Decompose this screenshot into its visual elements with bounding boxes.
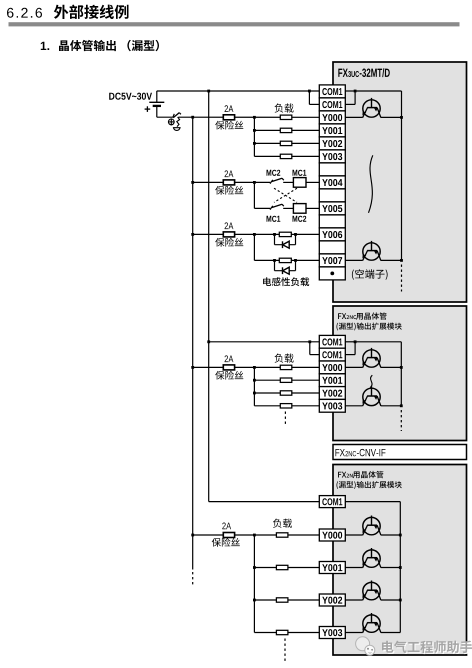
wire m2 Y003 to transistor — [345, 405, 362, 407]
omitted rows squiggle module2 — [370, 375, 372, 387]
inductive load Y006 — [279, 232, 291, 236]
battery DC5V~30V — [109, 93, 152, 100]
interlock dashed cross — [274, 188, 297, 202]
label FX2NC transistor sink output expansion module — [338, 313, 346, 319]
terminal Y005 — [319, 202, 345, 215]
load m2 Y003 — [280, 404, 292, 408]
header rule — [9, 22, 460, 26]
output transistor Q1 (Y000) — [362, 98, 381, 118]
load m3 Y003 — [276, 630, 288, 634]
label fuse F2 — [215, 186, 243, 195]
distribution wire module3 — [253, 535, 255, 633]
load Y002 — [280, 141, 292, 145]
wire group3 vertical — [253, 234, 255, 260]
load Y000 — [280, 115, 292, 119]
output transistor Q5 (m3 Y000) — [362, 516, 381, 536]
label FX2NC-CNV-IF — [335, 449, 385, 456]
label empty terminal — [352, 269, 388, 280]
label load group1 — [275, 103, 294, 112]
terminal m3 Y002 — [319, 594, 345, 606]
PLC main unit FX3UC-32MT/D box — [333, 62, 467, 302]
bus A (+V distribution) — [192, 117, 194, 569]
wire fuse row 2 — [193, 181, 271, 183]
header section title 6.2.6 — [7, 8, 42, 18]
label load module3 — [273, 519, 292, 528]
label 2A F3 — [225, 222, 234, 229]
module1 internal COM1 jumper right — [345, 90, 355, 92]
terminal m2 Y002 — [319, 387, 345, 400]
wire bus B to module2 COM1 — [209, 341, 320, 343]
wire battery minus to COM1 top wire — [157, 90, 319, 92]
wire switch to fuse row 1 — [179, 116, 320, 118]
module1 COM1 jumper left — [308, 91, 310, 104]
output transistor Q6 (m3 Y001) — [362, 548, 381, 568]
load m3 Y001 — [276, 565, 288, 569]
label MC1 bottom — [267, 216, 281, 222]
load Y001 — [280, 128, 292, 132]
flyback diode D1 — [274, 234, 276, 244]
wire row m3 Y003 — [254, 632, 319, 634]
socket shell mark — [174, 128, 181, 131]
fuse F1 2A — [223, 115, 234, 120]
wire row m3 Y001 — [254, 567, 319, 569]
wire m3 Y003 to transistor — [345, 632, 362, 634]
circled-plus terminal mark — [168, 118, 174, 125]
wire row m2 Y002 — [254, 392, 319, 394]
terminal m2 Y001 — [319, 374, 345, 387]
terminal m3 Y000 — [319, 529, 345, 541]
label FX2N transistor sink output expansion module — [338, 472, 346, 478]
wire fuse row module3 — [193, 534, 320, 536]
terminal Y004 — [319, 176, 345, 189]
label fuse F1 — [215, 121, 243, 130]
wire row Y007 — [254, 259, 319, 261]
terminal Y006 — [319, 228, 345, 241]
terminal — [319, 163, 345, 176]
output transistor Q2 (Y007) — [362, 241, 381, 261]
wire group2 vertical — [253, 182, 255, 208]
interlock contact MC2 — [270, 180, 273, 184]
wire coil MC2 to Y005 — [306, 207, 319, 209]
wire row Y003 — [254, 155, 319, 157]
wire contact to coil MC2 — [283, 207, 293, 209]
distribution wire group1 — [253, 117, 255, 156]
terminal Y003 — [319, 150, 345, 163]
terminal COM1 — [319, 85, 345, 98]
module1 emitter bus dashed continuation — [401, 265, 403, 292]
wire Y007 to transistor — [345, 259, 362, 261]
load Y003 — [280, 154, 292, 158]
load m2 Y000 — [280, 365, 292, 369]
fuse F4 2A — [223, 365, 234, 370]
flyback diode D2 — [274, 260, 276, 270]
terminal Y002 — [319, 137, 345, 150]
fuse F5 2A — [223, 533, 234, 538]
wire row Y001 — [254, 129, 319, 131]
terminal m3 Y001 — [319, 562, 345, 574]
wire fuse row 3 — [193, 233, 320, 235]
terminal DOT — [319, 267, 345, 280]
module3 COM1 to emitter bus — [345, 501, 400, 503]
label MC1 top — [293, 170, 307, 176]
wire coil MC1 to Y004 — [306, 181, 319, 183]
wire m3 Y001 to transistor — [345, 567, 362, 569]
terminal m2 COM1 — [319, 348, 345, 361]
interlock contact MC1 — [270, 206, 273, 210]
terminal m3 COM1 — [319, 496, 345, 508]
label MC2 bottom — [293, 216, 307, 222]
wire Y000 to transistor — [345, 116, 362, 118]
wire row Y002 — [254, 142, 319, 144]
label fuse F3 — [215, 238, 243, 247]
contactor coil MC2 — [293, 204, 306, 214]
label 2A F4 — [225, 355, 234, 362]
wire m3 Y002 to transistor — [345, 599, 362, 601]
load m2 Y002 — [280, 391, 292, 395]
output transistor Q8 (m3 Y003) — [362, 613, 381, 633]
label fuse F5 — [212, 538, 240, 547]
output transistor Q3 (m2 Y000) — [362, 348, 381, 368]
disconnect switch with terminal symbols — [173, 114, 174, 117]
label FX3UC-32MT/D — [338, 68, 389, 77]
fuse F3 2A — [223, 232, 234, 237]
wire m3 Y000 to transistor — [345, 534, 362, 536]
omitted rows squiggle module1 — [369, 155, 373, 213]
module2 emitter bus dashed continuation — [400, 410, 402, 431]
terminal m3 Y003 — [319, 627, 345, 639]
wire row Y005 — [254, 207, 270, 209]
output transistor Q4 (m2 Y003) — [362, 386, 381, 406]
load m3 Y002 — [276, 598, 288, 602]
module1 COM1 to emitter bus wire — [355, 90, 401, 92]
label load module2 — [275, 354, 294, 363]
contactor coil MC1 — [293, 178, 306, 188]
wire m2 Y000 to transistor — [345, 366, 362, 368]
terminal m2 COM1 — [319, 335, 345, 348]
terminal — [319, 241, 345, 254]
load m3 Y000 — [276, 533, 288, 537]
subtitle 1. transistor output (sink) — [41, 42, 49, 50]
terminal — [319, 189, 345, 202]
fuse F2 2A — [223, 180, 234, 185]
expansion module FX2NC box — [333, 306, 467, 441]
module2 COM1 to emitter bus — [355, 341, 401, 343]
wire row m2 Y003 — [254, 405, 319, 407]
wire battery plus to switch — [157, 116, 173, 118]
module3 load column dashed continuation — [284, 639, 286, 662]
module2 load column dashed continuation — [284, 412, 286, 426]
wire fuse row module2 — [193, 366, 320, 368]
terminal Y001 — [319, 124, 345, 137]
terminal — [319, 215, 345, 228]
interface converter FX2NC-CNV-IF box — [333, 445, 467, 460]
label inductive load — [263, 277, 309, 286]
bus B (0V to COM1s) — [208, 91, 210, 502]
module2 internal COM1 jumper right — [345, 341, 355, 343]
expansion module FX2N box — [333, 465, 467, 656]
battery plus sign — [145, 108, 151, 110]
module2 COM1 jumper left — [309, 342, 311, 355]
watermark text — [383, 642, 472, 654]
terminal Y007 — [319, 254, 345, 267]
wire row m2 Y001 — [254, 379, 319, 381]
output transistor Q7 (m3 Y002) — [362, 581, 381, 601]
label MC2 top — [267, 170, 281, 176]
label 2A F5 — [222, 523, 231, 530]
wire contact to coil MC1 — [283, 181, 293, 183]
terminal m2 Y000 — [319, 361, 345, 374]
label 2A F2 — [225, 170, 234, 177]
terminal COM1 — [319, 98, 345, 111]
label fuse F4 — [215, 371, 243, 380]
terminal Y000 — [319, 111, 345, 124]
wire bus B corner to module3 COM1 — [209, 501, 320, 503]
junction dots on buses — [191, 116, 194, 119]
load m2 Y001 — [280, 378, 292, 382]
wire row m3 Y002 — [254, 599, 319, 601]
label 2A F1 — [225, 105, 234, 112]
terminal m2 Y003 — [319, 399, 345, 412]
watermark logo — [356, 637, 375, 655]
inductive load Y007 — [279, 258, 291, 262]
distribution wire module2 — [253, 367, 255, 405]
